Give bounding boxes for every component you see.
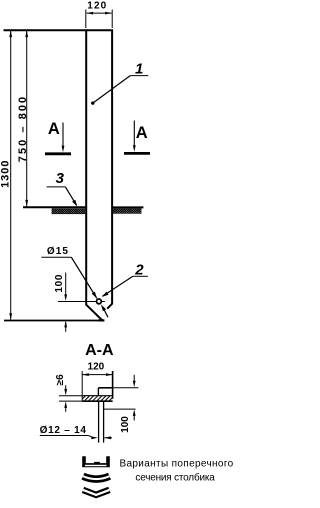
dimension Ø12-14 right arrow (104, 437, 112, 439)
profile variant 1: channel (82, 456, 110, 467)
ground hatch right (113, 208, 142, 213)
label Ø15 leader lower segment with arrow (104, 310, 108, 317)
anchor rod below bar (98, 401, 100, 442)
section bar (post plate section) (82, 396, 112, 401)
dimension 750-800 line (26, 31, 28, 206)
profile variant 2: arc (83, 476, 110, 479)
label 2 shelf (133, 275, 148, 277)
label 2 leader (103, 276, 133, 296)
svg-text:A-A: A-A (85, 342, 114, 359)
svg-text:100: 100 (120, 416, 131, 433)
label 1 shelf (130, 75, 148, 77)
hole Ø15 circle (97, 299, 102, 304)
label Ø15 leader upper segment (71, 257, 97, 298)
label 3 shelf (47, 186, 66, 188)
svg-text:сечения столбика: сечения столбика (135, 471, 215, 483)
section dimension 100 top arrow (133, 375, 135, 381)
svg-text:A: A (48, 120, 60, 138)
dimension 100 (main) hole-level extension line (58, 301, 97, 303)
post tip flat bottom cap (98, 319, 104, 321)
post left chamfer at tip (86, 304, 103, 321)
svg-text:3: 3 (56, 170, 65, 187)
dimension Ø12-14 left arrow (91, 436, 98, 439)
wire: post top edge extended left as extension line (4, 29, 113, 31)
svg-text:1: 1 (135, 60, 143, 77)
label Ø15 shelf (41, 256, 71, 258)
section dimension 120 line (82, 374, 112, 376)
label 1 leader dot (91, 101, 94, 104)
dimension 100 (main) bottom arrow (65, 322, 67, 332)
dimension 1300 line (10, 31, 12, 320)
label 1 leader (93, 76, 131, 104)
dimension 120 (top) extension lines (85, 10, 87, 29)
svg-text:120: 120 (87, 1, 107, 12)
svg-text:120: 120 (88, 361, 105, 372)
dimension Ø12-14 shelf/leader (40, 435, 89, 437)
post right edge (111, 29, 113, 304)
svg-text:1300: 1300 (0, 159, 12, 187)
section mark A left: thick line (45, 152, 71, 155)
hole centerline right stub (102, 301, 105, 303)
dimension >=6 arrows (65, 385, 67, 389)
ground line left (23, 206, 85, 208)
post right chamfer at tip (107, 304, 112, 309)
dimension 120 (top) line (87, 12, 112, 14)
svg-text:100: 100 (54, 274, 65, 293)
anchor rod upper rectangle left edge (97, 388, 99, 396)
svg-text:Варианты поперечного: Варианты поперечного (119, 459, 233, 470)
ground hatch left (52, 208, 86, 214)
post left edge (85, 29, 87, 305)
section mark A right: arrow (133, 121, 135, 146)
section mark A right: thick line (124, 152, 150, 155)
section dimension 120 extension lines (81, 371, 83, 395)
label 3 leader (65, 187, 76, 205)
dimension >=6 extension lines (59, 395, 82, 397)
section dimension 100 bottom arrow (133, 415, 135, 420)
anchor rod upper rectangle top line + 100 extension (98, 387, 112, 389)
dimension 100 (main) tip-level extension line (4, 320, 99, 322)
svg-text:Ø12 – 14: Ø12 – 14 (40, 425, 87, 436)
svg-text:Ø15: Ø15 (47, 246, 69, 257)
svg-text:A: A (136, 124, 148, 142)
section mark A left: arrow (62, 123, 64, 147)
ground line right (113, 206, 143, 208)
svg-text:≥6: ≥6 (55, 374, 66, 385)
svg-text:750 – 800: 750 – 800 (17, 95, 29, 162)
section dimension 100 bottom extension line (104, 408, 136, 410)
profile variant 3: chevron (83, 490, 109, 495)
dimension 100 (main) top arrow (65, 273, 67, 296)
